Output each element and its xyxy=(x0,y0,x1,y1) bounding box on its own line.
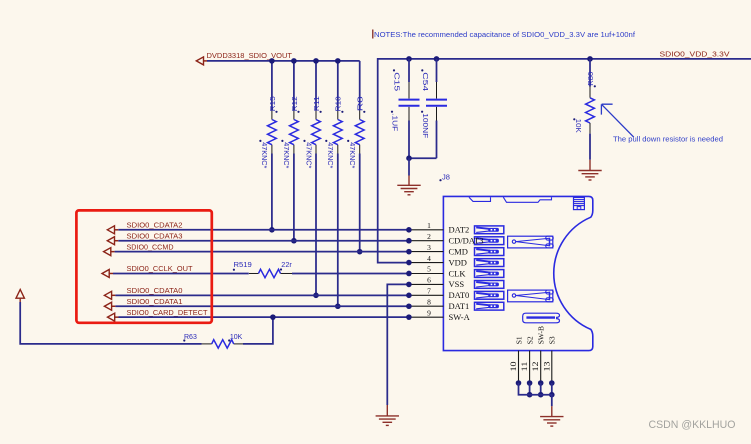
wire R10 column xyxy=(337,61,339,110)
svg-text:13: 13 xyxy=(542,362,551,372)
pad icon row 4 xyxy=(475,259,504,267)
resistor R11 47KNC* xyxy=(312,120,321,145)
node pin 7 xyxy=(406,293,412,299)
svg-text:SDIO0_CCMD: SDIO0_CCMD xyxy=(127,244,174,251)
wire SDIO0_CCMD xyxy=(115,251,408,253)
port SDIO0_CDATA0 xyxy=(104,291,111,299)
wire R15 column xyxy=(271,61,273,110)
svg-text:CMD: CMD xyxy=(449,246,468,256)
pad icon row 3 xyxy=(475,248,504,256)
node CARD_DETECT junction xyxy=(270,314,276,320)
svg-text:VDD: VDD xyxy=(449,257,467,267)
pad icon row 1 xyxy=(475,226,504,234)
svg-text:SW-B: SW-B xyxy=(537,326,546,344)
pin 9 SW-A xyxy=(408,316,444,318)
node rail/R12 xyxy=(291,58,297,64)
svg-text:7: 7 xyxy=(427,287,431,296)
svg-text:The pull down resistor is need: The pull down resistor is needed xyxy=(613,137,723,144)
wire R63 to CARD_DETECT xyxy=(243,317,273,344)
node R15 bottom xyxy=(269,227,275,233)
svg-text:9: 9 xyxy=(427,308,431,317)
wire SDIO0_CDATA0 xyxy=(115,294,407,296)
node R11 bottom xyxy=(313,293,319,299)
pin 5 CLK xyxy=(408,273,444,275)
svg-text:C15: C15 xyxy=(393,72,400,91)
node pin 12 end xyxy=(538,380,544,386)
svg-text:SDIO0_CARD_DETECT: SDIO0_CARD_DETECT xyxy=(127,310,209,317)
resistor R80 10K xyxy=(589,59,591,87)
svg-text:10: 10 xyxy=(509,362,518,372)
svg-text:R519: R519 xyxy=(234,262,252,269)
svg-text:C54: C54 xyxy=(421,72,428,91)
wire SDIO0_CDATA1 xyxy=(115,305,407,307)
power port (up triangle) xyxy=(16,290,24,299)
capacitor C15 .1UF xyxy=(408,59,410,82)
switch SW-B shape xyxy=(523,313,560,323)
svg-text:47KNC*: 47KNC* xyxy=(260,142,267,168)
note text xyxy=(372,30,374,39)
pin 8 DAT1 xyxy=(408,305,444,307)
ground under R80 xyxy=(589,160,591,171)
node R8 bottom xyxy=(357,249,363,255)
svg-text:S1: S1 xyxy=(514,336,523,344)
ground VSS xyxy=(386,405,388,416)
svg-text:100NF: 100NF xyxy=(421,113,428,138)
svg-text:SDIO0_VDD_3.3V: SDIO0_VDD_3.3V xyxy=(660,52,730,59)
svg-text:SDIO0_CDATA2: SDIO0_CDATA2 xyxy=(127,223,183,230)
svg-text:R15: R15 xyxy=(268,96,277,111)
svg-text:47KNC*: 47KNC* xyxy=(326,142,333,168)
svg-text:11: 11 xyxy=(520,362,529,372)
pad icon row 2 xyxy=(475,237,504,245)
ground bottom xyxy=(551,406,553,416)
svg-text:SDIO0_CCLK_OUT: SDIO0_CCLK_OUT xyxy=(127,266,194,273)
capacitor C54 100NF xyxy=(436,59,438,82)
annotation arrow xyxy=(601,104,633,137)
resistor R10 47KNC* xyxy=(333,120,342,145)
pin 4 VDD xyxy=(408,262,444,264)
port SDIO0_CDATA3 xyxy=(107,237,114,245)
wire bottom bus xyxy=(519,383,552,406)
svg-text:.1UF: .1UF xyxy=(391,113,398,131)
pad icon row 6 xyxy=(475,281,504,289)
node pin 9 xyxy=(406,314,412,320)
svg-text:SW-A: SW-A xyxy=(449,312,471,322)
resistor R63 10K xyxy=(202,343,212,345)
port SDIO0_CDATA1 xyxy=(104,302,111,310)
svg-text:DVDD3318_SDIO_VOUT: DVDD3318_SDIO_VOUT xyxy=(207,53,293,60)
svg-text:3: 3 xyxy=(427,243,431,252)
svg-text:R12: R12 xyxy=(290,96,299,111)
svg-text:2: 2 xyxy=(427,232,431,241)
svg-text:10K: 10K xyxy=(230,334,243,341)
node rail/R11 xyxy=(313,58,319,64)
port SDIO0_CCMD xyxy=(104,248,111,256)
svg-text:VSS: VSS xyxy=(449,279,465,289)
svg-text:12: 12 xyxy=(531,362,540,372)
port SDIO0_CCLK_OUT xyxy=(102,269,109,277)
svg-text:SDIO0_CDATA1: SDIO0_CDATA1 xyxy=(127,299,183,306)
wire SDIO0_CDATA2 xyxy=(118,229,407,231)
node R12 bottom xyxy=(291,238,297,244)
svg-text:5: 5 xyxy=(427,265,431,274)
pad icon row 5 xyxy=(475,270,504,278)
wire SDIO0_CCLK_OUT xyxy=(113,272,249,274)
wire DVDD rail xyxy=(207,60,360,62)
resistor R519 22r xyxy=(259,269,281,277)
node pin 8 xyxy=(406,303,412,309)
pad icon row 7 xyxy=(475,291,504,299)
svg-text:R8: R8 xyxy=(356,96,365,111)
node rail/R10 xyxy=(335,58,341,64)
svg-text:47KNC*: 47KNC* xyxy=(282,142,289,168)
ground under caps xyxy=(408,158,410,175)
svg-text:R11: R11 xyxy=(312,96,321,111)
svg-text:22r: 22r xyxy=(281,262,292,269)
port DVDD3318_SDIO_VOUT xyxy=(196,57,203,65)
wire R8 column xyxy=(359,61,361,110)
resistor R15 47KNC* xyxy=(268,120,277,145)
svg-text:DAT0: DAT0 xyxy=(449,290,470,300)
wire R12 column xyxy=(293,61,295,110)
pin 1 DAT2 xyxy=(408,229,444,231)
port SDIO0_CDATA2 xyxy=(107,226,114,234)
node pin 4 xyxy=(406,260,412,266)
pad icon row 8 xyxy=(475,302,504,310)
svg-text:CD/DAT3: CD/DAT3 xyxy=(449,236,484,246)
svg-text:DAT2: DAT2 xyxy=(449,225,470,235)
svg-text:R10: R10 xyxy=(334,96,343,111)
wire cap bottoms xyxy=(409,157,437,159)
svg-text:J8: J8 xyxy=(442,172,450,181)
resistor R12 47KNC* xyxy=(290,120,299,145)
svg-text:CSDN @KKLHUO: CSDN @KKLHUO xyxy=(649,419,736,431)
svg-text:1: 1 xyxy=(427,221,431,230)
svg-text:8: 8 xyxy=(427,297,431,306)
svg-text:10K: 10K xyxy=(574,119,581,133)
node rail/R15 xyxy=(269,58,275,64)
pin 3 CMD xyxy=(408,251,444,253)
svg-text:DAT1: DAT1 xyxy=(449,301,470,311)
node pin 6 xyxy=(406,282,412,288)
svg-text:4: 4 xyxy=(427,254,431,263)
svg-text:NOTES:The recommended capacita: NOTES:The recommended capacitance of SDI… xyxy=(374,30,636,39)
wire R11 column xyxy=(315,61,317,110)
connector top slot 2 xyxy=(503,197,551,202)
pin 6 VSS xyxy=(408,283,444,285)
connector J8 outline xyxy=(443,196,592,350)
node pin 10 end xyxy=(516,380,522,386)
node pin 1 xyxy=(406,227,412,233)
svg-text:47KNC*: 47KNC* xyxy=(304,142,311,168)
connector top slot 1 xyxy=(469,197,491,201)
wire left drop xyxy=(20,302,201,344)
svg-text:47KNC*: 47KNC* xyxy=(348,142,355,168)
node pin 5 xyxy=(406,271,412,277)
node cap junction xyxy=(406,155,412,161)
node pin 2 xyxy=(406,238,412,244)
card contact shape xyxy=(508,290,553,302)
node pin 3 xyxy=(406,249,412,255)
node rail/C54 xyxy=(434,56,440,62)
wire SDIO0_CARD_DETECT xyxy=(119,316,408,318)
resistor R8 47KNC* xyxy=(355,120,364,145)
svg-text:SDIO0_CDATA3: SDIO0_CDATA3 xyxy=(127,233,183,240)
node R10 bottom xyxy=(335,303,341,309)
svg-text:6: 6 xyxy=(427,276,431,285)
svg-text:R63: R63 xyxy=(184,334,197,341)
port SDIO0_CARD_DETECT xyxy=(108,313,115,321)
card contact shape xyxy=(508,236,553,248)
wire SDIO0_CDATA3 xyxy=(118,240,407,242)
red highlight box xyxy=(76,210,211,322)
pin 7 DAT0 xyxy=(408,294,444,296)
svg-text:R80: R80 xyxy=(586,72,595,86)
svg-text:S3: S3 xyxy=(548,336,557,344)
write protect switch icon xyxy=(574,198,585,210)
pin 2 CD/DAT3 xyxy=(408,240,444,242)
svg-text:CLK: CLK xyxy=(449,268,467,278)
node pin 13 end xyxy=(549,380,555,386)
wire VSS xyxy=(387,284,407,405)
svg-text:SDIO0_CDATA0: SDIO0_CDATA0 xyxy=(127,288,183,295)
svg-text:S2: S2 xyxy=(525,336,534,344)
node rail/R80 xyxy=(587,56,593,62)
wire SDIO0_VDD_3.3V rail xyxy=(378,59,751,263)
node pin 11 end xyxy=(527,380,533,386)
node rail/C15 xyxy=(406,56,412,62)
